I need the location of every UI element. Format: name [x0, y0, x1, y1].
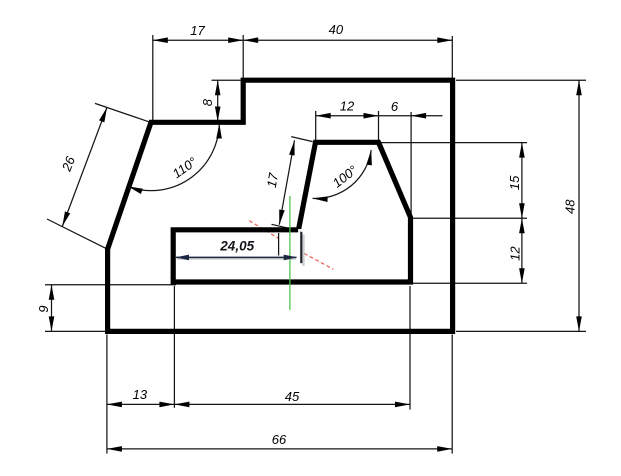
svg-text:45: 45: [285, 389, 300, 404]
svg-text:9: 9: [36, 306, 51, 313]
svg-text:6: 6: [391, 99, 399, 114]
svg-text:24,05: 24,05: [219, 238, 254, 253]
svg-text:66: 66: [272, 432, 287, 447]
svg-text:12: 12: [340, 98, 355, 113]
svg-text:12: 12: [507, 246, 522, 261]
svg-text:40: 40: [329, 22, 344, 37]
svg-text:17: 17: [190, 23, 205, 38]
svg-text:48: 48: [563, 199, 578, 214]
svg-text:8: 8: [200, 98, 215, 106]
svg-text:15: 15: [507, 175, 522, 190]
svg-text:13: 13: [133, 387, 148, 402]
